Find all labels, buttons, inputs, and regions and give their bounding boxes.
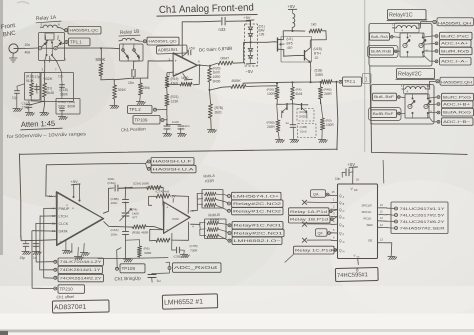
svg-text:10n: 10n bbox=[335, 177, 341, 181]
net label Relay#1C.NO2 bbox=[228, 209, 231, 212]
net label 74LUC2617#2.5Y bbox=[395, 214, 398, 217]
svg-text:SRCLK: SRCLK bbox=[362, 210, 372, 214]
svg-text:17p: 17p bbox=[58, 75, 64, 79]
trimmer capacitor P4 bbox=[122, 213, 130, 216]
svg-text:SRCLR: SRCLR bbox=[362, 204, 373, 208]
svg-text:SER: SER bbox=[367, 223, 374, 227]
coupling shunt chain bbox=[124, 188, 127, 199]
ground under box3 bbox=[61, 111, 63, 115]
svg-text:LMH5674.I.O+: LMH5674.I.O+ bbox=[233, 194, 279, 198]
svg-text:190k: 190k bbox=[143, 86, 151, 90]
svg-text:LMH6552 #1: LMH6552 #1 bbox=[164, 299, 203, 307]
svg-text:17p: 17p bbox=[35, 75, 41, 79]
svg-text:+5V: +5V bbox=[348, 162, 356, 167]
svg-text:Q: Q bbox=[339, 249, 342, 253]
wire emitter down bbox=[310, 62, 312, 70]
svg-text:(U3): (U3) bbox=[299, 110, 305, 114]
resistor 391K shunt bbox=[113, 85, 117, 99]
svg-text:HA09SH.U.F: HA09SH.U.F bbox=[153, 160, 193, 164]
svg-text:n33: n33 bbox=[219, 27, 227, 32]
net label 74HC595#1.QH (relay1C coil) bbox=[421, 21, 433, 23]
net label HA09SH.U.A bbox=[145, 163, 147, 168]
svg-text:TP108: TP108 bbox=[122, 266, 136, 271]
wire gate line bbox=[244, 41, 275, 44]
svg-text:(R6): (R6) bbox=[144, 247, 150, 251]
VGA output upper wire bbox=[103, 188, 113, 213]
resistor R1B 910K bbox=[29, 83, 33, 96]
svg-text:ADC_RxOut: ADC_RxOut bbox=[174, 265, 218, 270]
svg-text:BufL.BxF: BufL.BxF bbox=[374, 95, 394, 99]
attenuator group box 1 bbox=[25, 73, 41, 101]
net label ADC.I-A- bbox=[435, 60, 438, 63]
test point TP210 bbox=[54, 287, 57, 290]
svg-text:QA: QA bbox=[313, 192, 319, 196]
capacitor n33 bbox=[222, 17, 225, 25]
wire top tie bbox=[32, 72, 45, 83]
connector J1 (BNC) bbox=[9, 44, 18, 53]
wire into +in bbox=[162, 196, 164, 206]
node divider bbox=[209, 89, 211, 91]
ground under C170p bbox=[25, 113, 35, 116]
74HC595 pin QE unused bbox=[331, 223, 337, 226]
svg-text:1k00: 1k00 bbox=[181, 76, 188, 80]
74HC595 pin QC bbox=[331, 208, 337, 210]
svg-text:45?: 45? bbox=[287, 46, 293, 50]
svg-text:Relay#2C.NO2: Relay#2C.NO2 bbox=[233, 202, 281, 206]
svg-text:+5V: +5V bbox=[189, 47, 196, 51]
svg-text:Relay#2C.NO1: Relay#2C.NO1 bbox=[234, 231, 283, 235]
relay K1B contact housing bbox=[120, 44, 144, 61]
svg-text:HA595#1.QD: HA595#1.QD bbox=[149, 40, 177, 44]
VDD top-right routing wire bbox=[382, 160, 385, 183]
svg-text:(C1B): (C1B) bbox=[60, 88, 68, 92]
svg-text:(C5B) 1n5: (C5B) 1n5 bbox=[174, 255, 188, 259]
resistor 190K shunt bbox=[138, 83, 143, 95]
net label 74HC595#1.QC for relay1A coil bbox=[61, 28, 64, 30]
svg-text:BufA.RxB: BufA.RxB bbox=[371, 50, 392, 54]
diode D2a bbox=[248, 49, 252, 52]
svg-text:PWUP: PWUP bbox=[59, 207, 70, 211]
svg-text:4k8: 4k8 bbox=[25, 51, 31, 55]
svg-text:100n: 100n bbox=[108, 177, 115, 181]
svg-text:Q: Q bbox=[339, 223, 342, 227]
svg-text:(R7A) 453R: (R7A) 453R bbox=[146, 186, 163, 190]
resistor R4B 249R bbox=[318, 87, 323, 99]
resistor R19 43k8 bbox=[165, 76, 169, 88]
wire cap to path bbox=[132, 76, 134, 78]
capacitor 17p (2) bbox=[59, 85, 65, 88]
svg-text:100R: 100R bbox=[326, 123, 334, 127]
resistor R5A bbox=[147, 185, 161, 190]
net label ADC.I+B+ bbox=[437, 103, 440, 106]
74HC595 right pin RCLK bbox=[378, 220, 386, 222]
svg-text:249R: 249R bbox=[267, 125, 275, 129]
pack wire 3 bbox=[200, 229, 206, 235]
svg-text:10: 10 bbox=[315, 56, 319, 60]
output rail to TP2.L bbox=[243, 82, 310, 83]
pack wire 2 bbox=[198, 198, 203, 200]
capacitor 12n to ground bbox=[178, 126, 185, 129]
svg-text:800K: 800K bbox=[232, 78, 242, 83]
svg-text:Relay 1A.P1d: Relay 1A.P1d bbox=[290, 210, 327, 214]
series capacitor 15n bbox=[132, 69, 135, 77]
svg-text:Ch1 BringUp: Ch1 BringUp bbox=[114, 276, 141, 282]
op-amp U2 triangle bbox=[173, 53, 197, 77]
svg-text:D: D bbox=[343, 217, 345, 220]
relay K1A coil bbox=[43, 25, 57, 27]
contact bar 2 bbox=[51, 42, 53, 54]
resistor R7B 2k01 to ground bbox=[208, 104, 212, 118]
svg-text:15n: 15n bbox=[128, 81, 134, 85]
wire n33 to clamp node bbox=[226, 21, 250, 26]
svg-text:3R00: 3R00 bbox=[213, 80, 221, 84]
74HC595 right pin SRCLR bbox=[379, 207, 387, 209]
capacitor n33 path bbox=[182, 21, 221, 57]
svg-text:100n: 100n bbox=[111, 201, 118, 205]
attenuator lower box 3 bbox=[56, 99, 80, 115]
net label BufL.BxF bbox=[373, 93, 397, 101]
wire relay1A NC to attenuator bbox=[44, 55, 46, 62]
wire rail to collector bbox=[311, 31, 327, 40]
svg-text:Ch1 offset: Ch1 offset bbox=[56, 294, 75, 300]
wire output bbox=[199, 64, 209, 67]
net label ADC.I-B- bbox=[437, 120, 440, 123]
test point TP108 bbox=[116, 267, 119, 270]
ground at OE bbox=[388, 257, 398, 260]
feedback bottom R7B bbox=[172, 222, 189, 240]
net label BufB.RxF bbox=[369, 108, 402, 121]
svg-text:300R: 300R bbox=[144, 251, 152, 255]
svg-text:+5V: +5V bbox=[244, 16, 251, 20]
capacitor C6B 100n bbox=[122, 200, 129, 203]
svg-text:74LUC2617#2.5Y: 74LUC2617#2.5Y bbox=[400, 214, 446, 218]
diff amp U5 triangle bbox=[163, 201, 190, 233]
svg-text:ADC.I+B+: ADC.I+B+ bbox=[443, 103, 470, 107]
ground under 190K bbox=[136, 102, 146, 105]
74HC595 GND pin 8 bbox=[357, 258, 360, 264]
relay K2C pole B bbox=[424, 104, 428, 108]
svg-text:CLCK: CLCK bbox=[59, 222, 69, 226]
svg-text:G: G bbox=[343, 241, 345, 244]
relay K1A pole/contact set bbox=[38, 47, 41, 50]
node opamp output bbox=[209, 65, 211, 67]
wire relay1B to cap bbox=[132, 61, 135, 70]
net label Relay#1C.NO1 bbox=[228, 224, 231, 227]
wire relay to divider top bbox=[44, 62, 46, 83]
bottom node wires bbox=[43, 97, 45, 104]
svg-text:Relay 1C.P1d: Relay 1C.P1d bbox=[295, 248, 332, 252]
svg-text:465R: 465R bbox=[141, 231, 149, 235]
74HC595 pin QB unused bbox=[331, 201, 337, 204]
svg-text:Relay 1B.P1d: Relay 1B.P1d bbox=[290, 218, 328, 222]
svg-text:(R4B): (R4B) bbox=[324, 88, 332, 92]
relay K1C outer box bbox=[369, 24, 432, 67]
net label BufC.PxG bbox=[437, 96, 440, 99]
wire node to relay1B bbox=[101, 47, 120, 50]
node gate clamp bbox=[250, 41, 252, 43]
wire BNC to R input bbox=[18, 47, 25, 49]
test point TP1.2 bbox=[128, 106, 153, 114]
test point TP2.L bbox=[339, 80, 342, 83]
svg-text:74OR2614#2.2Y: 74OR2614#2.2Y bbox=[60, 276, 103, 280]
svg-text:0R47: 0R47 bbox=[221, 57, 230, 61]
svg-text:+5V: +5V bbox=[71, 179, 79, 184]
svg-text:74LUC2617#1.1Y: 74LUC2617#1.1Y bbox=[400, 207, 446, 211]
right net labels group box bbox=[391, 202, 448, 234]
wire 0R47 up to gate line bbox=[233, 43, 244, 63]
svg-text:(U1): (U1) bbox=[287, 37, 293, 41]
relay K1C contact inner box bbox=[400, 33, 424, 57]
resistor R5B 465R bbox=[133, 225, 147, 229]
relay K1B contacts bbox=[122, 44, 124, 49]
mirror label box 2N3904 bbox=[297, 109, 314, 122]
clamp -5V symbol bbox=[246, 62, 255, 65]
74HC595 pin QA bbox=[330, 195, 338, 197]
svg-text:Q: Q bbox=[339, 208, 342, 212]
svg-text:15: 15 bbox=[332, 190, 335, 194]
net label 74LK7004.L2Y bbox=[54, 260, 57, 263]
wire chain down 1 bbox=[166, 88, 168, 94]
net label ADC.I+A+ bbox=[435, 42, 438, 45]
svg-text:12n: 12n bbox=[185, 124, 190, 128]
svg-text:BufB.RxF: BufB.RxF bbox=[373, 112, 394, 116]
svg-text:(U1B): (U1B) bbox=[314, 47, 322, 51]
svg-text:DATA: DATA bbox=[59, 230, 69, 234]
svg-text:Q: Q bbox=[339, 201, 342, 205]
svg-text:1u: 1u bbox=[286, 121, 290, 125]
svg-text:BufR.Rx5: BufR.Rx5 bbox=[441, 49, 469, 53]
svg-text:700R: 700R bbox=[190, 249, 198, 253]
svg-text:TP1.1: TP1.1 bbox=[70, 40, 82, 45]
net label 74DK2614#1.1Y bbox=[54, 268, 57, 271]
net label QF bbox=[316, 229, 328, 236]
net label QA bbox=[311, 190, 326, 197]
svg-text:TP109: TP109 bbox=[135, 117, 148, 122]
svg-text:(51B): (51B) bbox=[315, 69, 323, 73]
resistor 123K bbox=[165, 94, 169, 106]
svg-text:(R7B): (R7B) bbox=[215, 106, 224, 110]
relay K2C pole A bbox=[408, 104, 412, 108]
svg-text:(R4): (R4) bbox=[296, 88, 302, 92]
wire tap to opamp path bbox=[114, 78, 148, 80]
svg-text:391K: 391K bbox=[118, 88, 127, 92]
svg-text:43k8: 43k8 bbox=[171, 82, 178, 86]
Atten underline bbox=[21, 128, 63, 130]
svg-text:249R: 249R bbox=[324, 92, 332, 96]
VGA bottom ground pins bbox=[65, 240, 67, 251]
svg-text:Q: Q bbox=[339, 215, 342, 219]
resistor R6 300R shunt bbox=[137, 246, 141, 257]
wire TP2 node down and across to VGA input bbox=[336, 82, 338, 150]
resistor 800K bbox=[99, 63, 104, 76]
ground under trim cap bbox=[13, 109, 23, 112]
svg-text:74HC595#1: 74HC595#1 bbox=[337, 272, 368, 279]
attenuator group box 2 bbox=[41, 73, 74, 102]
relay K1A contact housing bbox=[39, 33, 65, 61]
relay K2C outer box bbox=[371, 85, 434, 125]
wire relay NO to cap top bbox=[57, 62, 62, 80]
wire to relay 1A pole bbox=[25, 47, 38, 50]
minus input chain bbox=[167, 72, 173, 76]
svg-text:6k04: 6k04 bbox=[296, 92, 303, 96]
bottom rail under coupling chain bbox=[98, 257, 168, 260]
svg-text:QF: QF bbox=[318, 231, 324, 235]
resistor 932K bbox=[42, 83, 47, 97]
relay K2C contact inner box bbox=[405, 94, 429, 118]
svg-text:800R: 800R bbox=[68, 105, 76, 109]
svg-text:V: V bbox=[354, 254, 356, 258]
current mirror transistors Q3 Q4 bbox=[277, 103, 292, 105]
diode D1a bbox=[248, 27, 252, 30]
node main after relay1A bbox=[100, 47, 102, 49]
op-amp -5V rail bbox=[183, 74, 187, 79]
net label 74OR2614#2.2Y bbox=[54, 276, 57, 279]
svg-text:74LUC2617#6.2Y: 74LUC2617#6.2Y bbox=[400, 220, 446, 224]
input caps at VGA 15p bbox=[25, 241, 27, 243]
ground coupling chain bbox=[123, 259, 133, 262]
svg-text:BufL.RxA: BufL.RxA bbox=[371, 35, 389, 39]
input trim cap 17p left bbox=[16, 86, 18, 90]
stray page mark near fold bbox=[363, 74, 372, 84]
feedback top R7A 453R bbox=[172, 196, 188, 214]
resistor 6k04 bbox=[290, 87, 294, 100]
svg-text:150K: 150K bbox=[60, 93, 69, 97]
net label ADC_RxOut bbox=[168, 267, 171, 270]
svg-text:Relay#2C: Relay#2C bbox=[398, 71, 422, 77]
svg-text:Q: Q bbox=[339, 232, 342, 236]
svg-text:HA09SH.U.A: HA09SH.U.A bbox=[153, 167, 195, 171]
capacitor C4A 100n bbox=[122, 232, 129, 235]
svg-text:10n: 10n bbox=[25, 43, 31, 47]
ground under 2k01 bbox=[207, 130, 217, 133]
svg-text:(C7B): (C7B) bbox=[190, 244, 198, 248]
svg-text:RxbLB: RxbLB bbox=[208, 213, 220, 218]
wire JFET source to base bbox=[283, 54, 304, 57]
wire 800K to tap bbox=[101, 76, 114, 80]
svg-text:74DK2614#1.1Y: 74DK2614#1.1Y bbox=[60, 268, 102, 272]
svg-text:1u: 1u bbox=[157, 279, 161, 283]
wire tap down bbox=[113, 80, 115, 86]
svg-text:(10A): (10A) bbox=[68, 100, 76, 104]
svg-text:(5?): (5?) bbox=[47, 87, 53, 91]
svg-text:16: 16 bbox=[356, 178, 360, 182]
svg-text:800K: 800K bbox=[96, 57, 106, 62]
diode D2b bbox=[248, 56, 252, 59]
wire cap2 leads bbox=[61, 80, 63, 95]
svg-text:199: 199 bbox=[259, 33, 265, 37]
net label Relay 1A.P1d bbox=[289, 208, 330, 215]
svg-text:15p: 15p bbox=[20, 256, 26, 260]
net label 74HC595#2.QH (relay2C coil) bbox=[430, 81, 436, 83]
stray wire lower left of relay label bbox=[285, 254, 294, 262]
net label LMH5674.I.O+ bbox=[228, 195, 231, 198]
extra relay1A contact marks bbox=[47, 40, 49, 42]
ground bias 3 bbox=[318, 140, 328, 143]
net label BufC.PxC bbox=[433, 35, 436, 38]
wire feedback to minus chain bbox=[167, 84, 180, 86]
test point TP1.1 bbox=[65, 41, 68, 44]
pack wire 2 bbox=[200, 225, 206, 230]
diode D1b bbox=[248, 34, 252, 37]
svg-text:Relay#1C.NO1: Relay#1C.NO1 bbox=[234, 224, 282, 228]
svg-text:HA595#1.QH: HA595#1.QH bbox=[438, 21, 471, 25]
svg-text:BTH: BTH bbox=[314, 52, 321, 56]
wire chain down 2 bbox=[166, 106, 168, 115]
relay K1C pole A bbox=[403, 43, 407, 47]
svg-text:33R0: 33R0 bbox=[315, 73, 323, 77]
svg-text:HA595#1.QC: HA595#1.QC bbox=[70, 29, 99, 33]
decoupling capacitor 10n at 595 bbox=[350, 171, 353, 174]
wire cap1 leads bbox=[36, 84, 38, 94]
wire +5 rail bbox=[283, 30, 305, 32]
svg-text:Q: Q bbox=[339, 239, 342, 243]
svg-text:RCLK: RCLK bbox=[364, 217, 372, 221]
svg-text:LMH6552.I.O−: LMH6552.I.O− bbox=[234, 239, 281, 243]
svg-text:10R0: 10R0 bbox=[213, 75, 221, 79]
relay K2C throw stubs bbox=[411, 94, 413, 99]
IC label AD8370#1 bbox=[52, 300, 109, 313]
net label Relay 1B.P1d bbox=[289, 216, 331, 224]
74HC595 pin QD bbox=[331, 216, 337, 218]
svg-text:BF5: BF5 bbox=[287, 42, 293, 46]
resistor R30 100R bbox=[275, 87, 280, 99]
relay section lower frame wire bbox=[370, 66, 371, 124]
relay K1C coil bbox=[392, 27, 396, 29]
svg-text:(R0): (R0) bbox=[326, 119, 332, 123]
svg-text:123K: 123K bbox=[171, 100, 180, 104]
74HC595 right pin SRCLK bbox=[379, 213, 387, 216]
net label Relay#2C.NO2 bbox=[228, 202, 231, 205]
input cap 1n bbox=[35, 241, 38, 243]
svg-text:910K: 910K bbox=[26, 79, 35, 83]
74HC595 OE pin to ground bbox=[378, 243, 392, 256]
svg-text:OE: OE bbox=[368, 239, 372, 243]
buffer stage outline box bbox=[281, 37, 312, 63]
svg-text:H: H bbox=[343, 251, 345, 254]
VGA U4 AD8370 triangle bbox=[56, 192, 103, 246]
svg-text:2k48: 2k48 bbox=[47, 91, 54, 95]
resistor R5B 249R lower bbox=[276, 120, 280, 132]
capacitor 1u0 lower bbox=[290, 125, 296, 128]
relay K2C right contact wires bbox=[429, 96, 436, 99]
svg-text:ADC.I−A−: ADC.I−A− bbox=[441, 60, 468, 64]
svg-text:BufA.RxG: BufA.RxG bbox=[443, 110, 471, 114]
svg-text:(C7A): (C7A) bbox=[156, 190, 164, 194]
relay K1C title box bbox=[388, 10, 427, 20]
svg-text:(C4A): (C4A) bbox=[111, 228, 119, 232]
net label 74HC595#1.QD for relay1B coil bbox=[139, 40, 143, 42]
clamp diode box D1 BAV199 bbox=[245, 24, 258, 66]
svg-text:47?: 47? bbox=[132, 216, 137, 220]
net label HA09SH.U.F bbox=[146, 161, 147, 163]
relay1C title underline bbox=[387, 19, 427, 22]
svg-text:Relay#1C.NO2: Relay#1C.NO2 bbox=[233, 209, 281, 213]
svg-text:74HA597#2.SER: 74HA597#2.SER bbox=[400, 227, 446, 231]
wire trim tie bbox=[17, 84, 24, 86]
relay K1C pole B bbox=[419, 43, 423, 47]
svg-text:(C6A): (C6A) bbox=[108, 181, 116, 185]
svg-text:(C5A): (C5A) bbox=[133, 182, 141, 186]
svg-text:ADC.I−B−: ADC.I−B− bbox=[443, 120, 470, 124]
inner wire HA nets to VGA +input bbox=[46, 164, 146, 197]
transistor Q1 JFET BF545 bbox=[275, 41, 278, 43]
svg-text:LTCH: LTCH bbox=[59, 215, 69, 219]
svg-text:+: + bbox=[175, 59, 178, 64]
svg-text:AD8370#1: AD8370#1 bbox=[54, 304, 86, 312]
74HC595 pin QF bbox=[331, 232, 337, 234]
relay1B throw stub bbox=[127, 58, 129, 62]
capacitor 17p bbox=[34, 87, 40, 90]
